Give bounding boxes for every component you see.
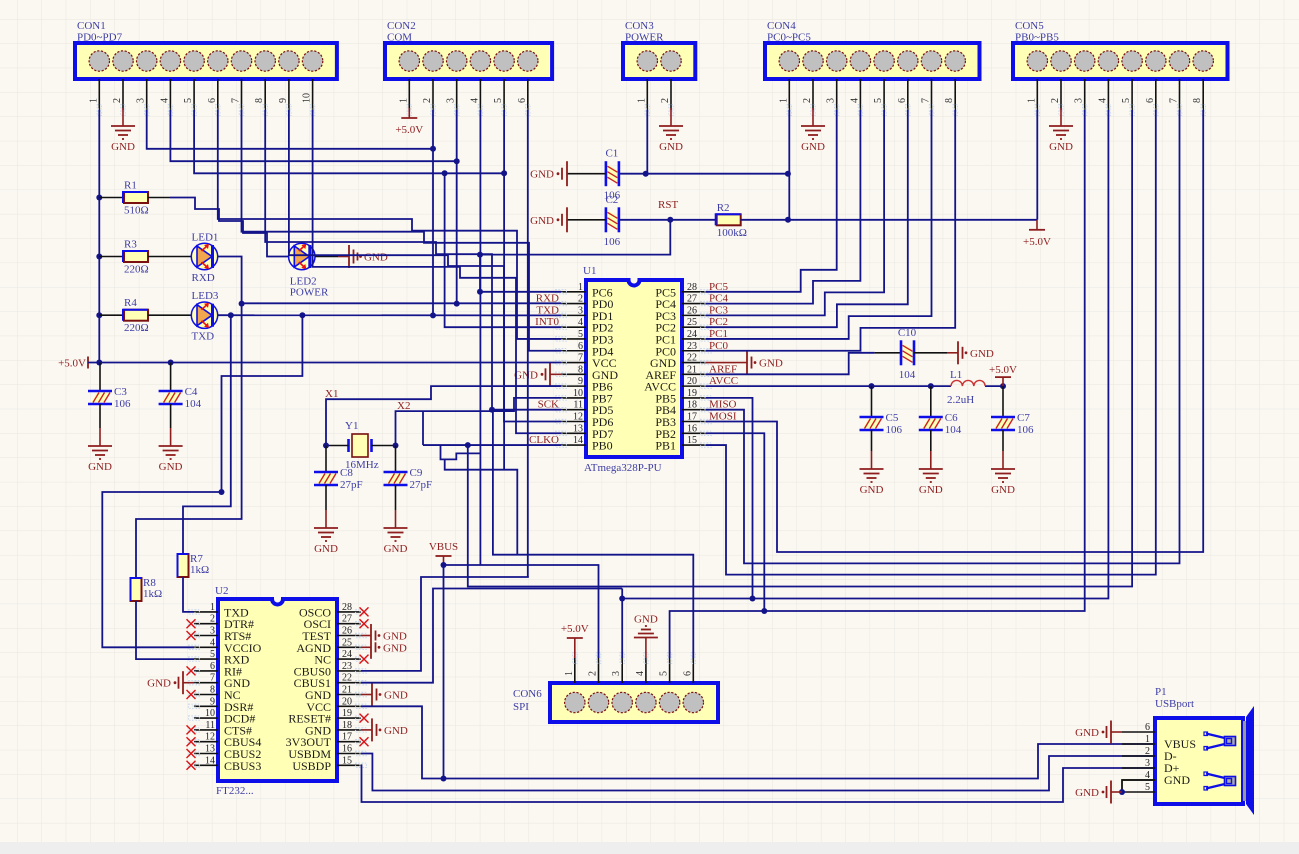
wire CON4 pin8 PC0 bbox=[706, 110, 955, 351]
svg-text:GND: GND bbox=[384, 543, 408, 555]
wire pin9 feed bbox=[504, 385, 561, 387]
power +5.0V bbox=[1002, 377, 1004, 386]
svg-text:6: 6 bbox=[578, 341, 583, 352]
svg-text:11: 11 bbox=[573, 400, 583, 411]
svg-text:PB0~PB5: PB0~PB5 bbox=[1015, 32, 1059, 44]
wire VBUS vertical bbox=[444, 565, 1156, 779]
wire CON4 pin4 PC4 bbox=[706, 110, 860, 304]
svg-text:X1: X1 bbox=[325, 388, 338, 400]
svg-text:26: 26 bbox=[342, 626, 352, 637]
resistor R1 bbox=[124, 192, 148, 203]
capacitor C5 bbox=[863, 419, 881, 429]
svg-text:GND: GND bbox=[1075, 727, 1099, 739]
svg-text:TXD: TXD bbox=[192, 331, 215, 343]
wire CON5 pin8 MOSI bbox=[706, 110, 1203, 552]
wire mid staircase a bbox=[222, 315, 303, 492]
ground bbox=[634, 637, 658, 639]
wire CON4 pin1 +5V bbox=[788, 110, 790, 220]
svg-text:GND: GND bbox=[530, 169, 554, 181]
U2 pins left bbox=[194, 611, 218, 613]
wire SCK to CON6 pin6 bbox=[493, 410, 693, 658]
wire CON5 pin5 CLKO bbox=[468, 110, 1132, 587]
svg-text:1kΩ: 1kΩ bbox=[190, 564, 209, 576]
svg-text:27: 27 bbox=[342, 614, 352, 625]
svg-text:5: 5 bbox=[183, 98, 194, 103]
power +5.0V bbox=[87, 357, 89, 369]
inductor L1 bbox=[951, 380, 985, 386]
connector CON2 bbox=[385, 43, 552, 79]
wire CON1 pin3 to CON2 pin2 bbox=[147, 110, 433, 149]
svg-text:CON4: CON4 bbox=[767, 20, 796, 32]
svg-text:GND: GND bbox=[514, 369, 538, 381]
svg-text:LED1: LED1 bbox=[192, 232, 219, 244]
wire mid staircase b bbox=[441, 445, 481, 459]
connector CON6 bbox=[550, 683, 718, 722]
svg-text:4: 4 bbox=[1097, 98, 1108, 103]
U1 pin22 ground bbox=[706, 362, 736, 364]
svg-text:2: 2 bbox=[578, 294, 583, 305]
wire CON1 pin6 bus bbox=[218, 110, 561, 339]
svg-text:4: 4 bbox=[635, 671, 646, 676]
svg-text:9: 9 bbox=[578, 376, 583, 387]
U1 pins left bbox=[561, 291, 586, 293]
svg-text:+5.0V: +5.0V bbox=[561, 623, 589, 635]
svg-text:5: 5 bbox=[1145, 782, 1150, 793]
connector CON1 bbox=[75, 43, 337, 79]
svg-text:2: 2 bbox=[422, 98, 433, 103]
wire U2 CBUS0 bbox=[361, 577, 529, 671]
svg-text:2: 2 bbox=[1050, 98, 1061, 103]
svg-text:GND: GND bbox=[659, 141, 683, 153]
capacitor C7 bbox=[994, 419, 1012, 429]
crystal Y1 bbox=[352, 434, 368, 457]
svg-text:ATmega328P-PU: ATmega328P-PU bbox=[584, 462, 662, 474]
connector CON3 bbox=[623, 43, 695, 79]
svg-text:9: 9 bbox=[210, 696, 215, 707]
svg-text:1: 1 bbox=[578, 282, 583, 293]
resistor R7 bbox=[178, 554, 189, 577]
wire TXD row bbox=[218, 314, 561, 316]
svg-text:1: 1 bbox=[1026, 98, 1037, 103]
svg-text:GND: GND bbox=[364, 252, 388, 264]
svg-text:CON2: CON2 bbox=[387, 20, 416, 32]
capacitor C4 bbox=[162, 393, 180, 403]
svg-text:RST: RST bbox=[658, 199, 678, 211]
svg-text:1: 1 bbox=[564, 671, 575, 676]
svg-text:GND: GND bbox=[530, 215, 554, 227]
svg-text:GND: GND bbox=[384, 690, 408, 702]
capacitor C4 branch bbox=[170, 363, 172, 392]
svg-text:8: 8 bbox=[1192, 98, 1203, 103]
ground bbox=[170, 428, 172, 446]
svg-text:C2: C2 bbox=[605, 194, 618, 206]
svg-text:9: 9 bbox=[278, 98, 289, 103]
svg-text:21: 21 bbox=[342, 685, 352, 696]
svg-text:20: 20 bbox=[687, 376, 697, 387]
ground bbox=[325, 510, 327, 528]
resistor R2 bbox=[717, 214, 741, 225]
C2 ground bbox=[567, 219, 606, 221]
svg-text:19: 19 bbox=[342, 708, 352, 719]
svg-text:+5.0V: +5.0V bbox=[989, 364, 1017, 376]
svg-text:3: 3 bbox=[210, 626, 215, 637]
svg-text:2.2uH: 2.2uH bbox=[947, 394, 974, 406]
svg-text:GND: GND bbox=[970, 348, 994, 360]
ground bbox=[1111, 791, 1122, 793]
svg-text:LED3: LED3 bbox=[192, 290, 219, 302]
svg-text:2: 2 bbox=[802, 98, 813, 103]
wire CON5 pin1 bbox=[1036, 110, 1038, 220]
svg-text:6: 6 bbox=[897, 98, 908, 103]
svg-text:3: 3 bbox=[578, 305, 583, 316]
svg-text:100kΩ: 100kΩ bbox=[717, 227, 747, 239]
svg-text:3: 3 bbox=[1145, 758, 1150, 769]
svg-text:21: 21 bbox=[687, 364, 697, 375]
svg-text:COM: COM bbox=[387, 32, 412, 44]
svg-text:C1: C1 bbox=[605, 148, 618, 160]
svg-text:1: 1 bbox=[88, 98, 99, 103]
svg-text:C6: C6 bbox=[945, 412, 958, 424]
svg-text:GND: GND bbox=[384, 725, 408, 737]
power +5.0V bbox=[1036, 220, 1038, 230]
svg-text:U1: U1 bbox=[583, 265, 596, 277]
svg-text:3: 3 bbox=[136, 98, 147, 103]
wire CLKO row bbox=[423, 444, 561, 446]
wire CON1 pin4 to CON2 pin3 bbox=[170, 110, 456, 161]
wire USBDP to D+ bbox=[361, 765, 1155, 802]
svg-text:5: 5 bbox=[578, 329, 583, 340]
svg-text:3: 3 bbox=[1074, 98, 1085, 103]
svg-text:1: 1 bbox=[636, 98, 647, 103]
wire X2 net bbox=[372, 445, 396, 447]
resistor R7 net (TXD) bbox=[183, 315, 231, 554]
wire X1 net bbox=[326, 445, 349, 447]
LED LED2 bbox=[288, 256, 316, 258]
LED LED3 bbox=[191, 314, 219, 316]
svg-text:C8: C8 bbox=[340, 467, 353, 479]
svg-text:12: 12 bbox=[205, 732, 215, 743]
svg-text:23: 23 bbox=[687, 341, 697, 352]
wire CON5 pin3 PB2 bbox=[706, 110, 1085, 611]
U1 pins right bbox=[682, 291, 706, 293]
wire CON5 pin4 via p19 bbox=[706, 398, 753, 599]
wire CON1 pin5 INT0 rail bbox=[194, 110, 504, 173]
svg-text:C9: C9 bbox=[410, 467, 423, 479]
svg-text:GND: GND bbox=[383, 642, 407, 654]
svg-text:8: 8 bbox=[210, 685, 215, 696]
P1 pin4/5 ground bbox=[1122, 780, 1155, 792]
svg-text:USBDP: USBDP bbox=[292, 759, 331, 773]
power +5.0V bbox=[408, 108, 410, 118]
svg-text:18: 18 bbox=[687, 400, 697, 411]
wire CON1 pin9 bus bbox=[289, 110, 561, 421]
wire R2 to +5V bbox=[740, 219, 1037, 221]
svg-text:GND: GND bbox=[860, 484, 884, 496]
svg-text:14: 14 bbox=[205, 755, 215, 766]
capacitor C10 bbox=[903, 343, 913, 362]
svg-text:12: 12 bbox=[573, 411, 583, 422]
svg-text:5: 5 bbox=[210, 649, 215, 660]
svg-text:CON1: CON1 bbox=[77, 20, 106, 32]
svg-text:2: 2 bbox=[660, 98, 671, 103]
capacitor C1 bbox=[607, 164, 617, 183]
op U1 body bbox=[586, 280, 682, 457]
ground bbox=[183, 682, 194, 684]
svg-text:7: 7 bbox=[1169, 98, 1180, 103]
svg-text:CBUS3: CBUS3 bbox=[224, 759, 261, 773]
svg-text:220Ω: 220Ω bbox=[124, 322, 149, 334]
svg-text:8: 8 bbox=[944, 98, 955, 103]
svg-text:3: 3 bbox=[446, 98, 457, 103]
wire CON2 pin5 bus bbox=[503, 110, 505, 470]
svg-text:220Ω: 220Ω bbox=[124, 264, 149, 276]
svg-text:PB0: PB0 bbox=[592, 439, 613, 453]
svg-text:7: 7 bbox=[210, 673, 215, 684]
ground bbox=[670, 108, 672, 126]
svg-text:GND: GND bbox=[1049, 141, 1073, 153]
svg-text:C4: C4 bbox=[185, 386, 198, 398]
svg-text:18: 18 bbox=[342, 720, 352, 731]
ground bbox=[812, 108, 814, 126]
svg-text:7: 7 bbox=[578, 353, 583, 364]
svg-text:7: 7 bbox=[921, 98, 932, 103]
svg-text:POWER: POWER bbox=[625, 32, 664, 44]
svg-text:POWER: POWER bbox=[290, 287, 329, 299]
svg-text:GND: GND bbox=[759, 358, 783, 370]
svg-text:VBUS: VBUS bbox=[429, 541, 458, 553]
capacitor C8 bbox=[325, 446, 327, 473]
svg-text:2: 2 bbox=[588, 671, 599, 676]
svg-text:1: 1 bbox=[1145, 734, 1150, 745]
svg-text:GND: GND bbox=[147, 678, 171, 690]
capacitor C9 bbox=[387, 474, 405, 484]
svg-text:7: 7 bbox=[231, 98, 242, 103]
ground bbox=[99, 428, 101, 446]
svg-text:GND: GND bbox=[1164, 773, 1190, 787]
ground bbox=[1111, 731, 1122, 733]
resistor R8 net (RXD) bbox=[136, 303, 242, 578]
svg-text:RXD: RXD bbox=[192, 272, 215, 284]
capacitor C3 branch bbox=[99, 363, 101, 392]
svg-text:6: 6 bbox=[517, 98, 528, 103]
svg-text:28: 28 bbox=[342, 602, 352, 613]
svg-text:GND: GND bbox=[111, 141, 135, 153]
svg-text:C5: C5 bbox=[886, 412, 899, 424]
svg-text:GND: GND bbox=[991, 484, 1015, 496]
wire CON4 pin6 PC2 bbox=[706, 110, 908, 327]
svg-text:R1: R1 bbox=[124, 180, 137, 192]
wire CON6 pin3 to bus bbox=[621, 589, 623, 659]
svg-text:24: 24 bbox=[687, 329, 697, 340]
ground bbox=[871, 451, 873, 469]
svg-text:Y1: Y1 bbox=[345, 420, 358, 432]
resistor R4 bbox=[124, 310, 148, 321]
svg-text:6: 6 bbox=[1145, 98, 1156, 103]
wire CON5 pin7 MISO bbox=[706, 110, 1180, 563]
ground bbox=[930, 451, 932, 469]
wire CON1 pin8 bus bbox=[265, 110, 561, 410]
svg-text:8: 8 bbox=[254, 98, 265, 103]
ground bbox=[122, 108, 124, 126]
wire VCCIO bbox=[102, 492, 219, 647]
svg-text:16: 16 bbox=[687, 423, 697, 434]
svg-text:CON6: CON6 bbox=[513, 688, 542, 700]
svg-text:27pF: 27pF bbox=[410, 479, 433, 491]
wire CON2 pin4 DTR bbox=[479, 110, 481, 565]
svg-text:510Ω: 510Ω bbox=[124, 205, 149, 217]
capacitor C9 bbox=[395, 446, 397, 473]
wire CON6 pin5 to bus bbox=[670, 611, 765, 658]
wire CON3 pin1 +5V bbox=[646, 110, 648, 174]
wire R3 lead bbox=[99, 256, 124, 258]
svg-text:27pF: 27pF bbox=[340, 479, 363, 491]
svg-text:CON5: CON5 bbox=[1015, 20, 1044, 32]
capacitor C2 bbox=[607, 210, 617, 229]
svg-text:16: 16 bbox=[342, 744, 352, 755]
LED2 ground bbox=[315, 256, 338, 258]
wire LED1 to RXD row bbox=[218, 257, 561, 304]
svg-text:GND: GND bbox=[919, 484, 943, 496]
op U2 body bbox=[218, 599, 337, 781]
svg-text:PD0~PD7: PD0~PD7 bbox=[77, 32, 123, 44]
wire CON4 pin5 PC3 bbox=[706, 110, 884, 315]
svg-text:6: 6 bbox=[207, 98, 218, 103]
svg-text:5: 5 bbox=[493, 98, 504, 103]
wire R4 lead bbox=[99, 314, 124, 316]
svg-text:X2: X2 bbox=[397, 400, 410, 412]
wire CON2 pin3 RXD bbox=[456, 110, 458, 304]
svg-text:2: 2 bbox=[1145, 746, 1150, 757]
svg-text:+5.0V: +5.0V bbox=[58, 358, 86, 370]
svg-text:20: 20 bbox=[342, 696, 352, 707]
net AREF bbox=[706, 353, 875, 375]
svg-text:1: 1 bbox=[210, 602, 215, 613]
ground bbox=[947, 352, 958, 354]
svg-text:15: 15 bbox=[342, 755, 352, 766]
svg-text:GND: GND bbox=[314, 543, 338, 555]
wire CON2 pin6 bus bbox=[527, 110, 529, 577]
capacitor C6 bbox=[922, 419, 940, 429]
svg-text:GND: GND bbox=[159, 461, 183, 473]
svg-text:14: 14 bbox=[573, 435, 583, 446]
ground bbox=[361, 694, 372, 696]
svg-text:25: 25 bbox=[687, 317, 697, 328]
svg-text:106: 106 bbox=[604, 236, 621, 248]
wire USBDM to D- bbox=[361, 754, 1155, 791]
svg-text:19: 19 bbox=[687, 388, 697, 399]
U2 no-connects left bbox=[187, 619, 196, 628]
wire CON5 pin6 PB1 bbox=[706, 110, 1156, 575]
net AVCC bbox=[706, 385, 951, 387]
svg-text:11: 11 bbox=[205, 720, 215, 731]
ground bbox=[736, 362, 747, 364]
capacitor C7 bbox=[1002, 386, 1004, 417]
wire R1 lead bbox=[99, 197, 124, 199]
capacitor C6 bbox=[930, 386, 932, 417]
connector CON5 bbox=[1013, 43, 1228, 79]
svg-text:8: 8 bbox=[578, 364, 583, 375]
svg-text:2: 2 bbox=[112, 98, 123, 103]
svg-text:3: 3 bbox=[826, 98, 837, 103]
svg-text:1: 1 bbox=[778, 98, 789, 103]
svg-text:22: 22 bbox=[342, 673, 352, 684]
svg-text:17: 17 bbox=[342, 732, 352, 743]
wire U2 CBUS1 bbox=[361, 589, 622, 683]
svg-text:GND: GND bbox=[1075, 787, 1099, 799]
svg-text:PC0~PC5: PC0~PC5 bbox=[767, 32, 811, 44]
wire R1 to LED2 staircase bbox=[148, 197, 170, 199]
svg-text:4: 4 bbox=[159, 98, 170, 103]
svg-text:4: 4 bbox=[469, 98, 480, 103]
svg-text:SPI: SPI bbox=[513, 701, 529, 713]
U2 no-connects right bbox=[360, 607, 369, 616]
capacitor C8 bbox=[317, 474, 335, 484]
wire INT0 drop bbox=[445, 173, 561, 327]
svg-text:23: 23 bbox=[342, 661, 352, 672]
svg-text:24: 24 bbox=[342, 649, 352, 660]
svg-text:FT232...: FT232... bbox=[216, 785, 254, 797]
svg-text:C7: C7 bbox=[1017, 412, 1030, 424]
svg-text:GND: GND bbox=[383, 631, 407, 643]
net +5V top rail bbox=[619, 173, 788, 175]
svg-text:17: 17 bbox=[687, 411, 697, 422]
wire U2 VCC to VBUS bbox=[361, 706, 444, 778]
svg-text:10: 10 bbox=[302, 93, 313, 103]
svg-text:USBport: USBport bbox=[1155, 698, 1194, 710]
svg-text:104: 104 bbox=[185, 398, 202, 410]
wire CON2 pin2 TXD bbox=[432, 110, 434, 315]
svg-text:C3: C3 bbox=[114, 386, 127, 398]
svg-text:1kΩ: 1kΩ bbox=[143, 588, 162, 600]
ground bbox=[361, 729, 372, 731]
svg-text:106: 106 bbox=[114, 398, 131, 410]
U2 TEST/AGND grounds bbox=[361, 635, 371, 637]
USB contacts bbox=[1206, 734, 1231, 740]
svg-text:U2: U2 bbox=[215, 585, 228, 597]
connector CON4 bbox=[765, 43, 980, 79]
capacitor C3 bbox=[91, 393, 109, 403]
svg-text:4: 4 bbox=[210, 637, 215, 648]
svg-text:13: 13 bbox=[205, 744, 215, 755]
svg-text:4: 4 bbox=[578, 317, 583, 328]
wire CON4 pin3 PC5 bbox=[706, 110, 837, 292]
svg-text:L1: L1 bbox=[950, 369, 962, 381]
wire CON1 pin7 bus bbox=[242, 110, 562, 351]
svg-text:5: 5 bbox=[873, 98, 884, 103]
svg-text:3: 3 bbox=[611, 671, 622, 676]
node +5V vertical from CON1 pin1 bbox=[98, 110, 100, 363]
svg-text:6: 6 bbox=[1145, 722, 1150, 733]
svg-text:6: 6 bbox=[210, 661, 215, 672]
ground bbox=[395, 510, 397, 528]
svg-text:15: 15 bbox=[687, 435, 697, 446]
U2 pins right bbox=[337, 611, 361, 613]
svg-text:+5.0V: +5.0V bbox=[395, 124, 423, 136]
ground bbox=[1060, 108, 1062, 126]
ground bbox=[1002, 451, 1004, 469]
svg-text:106: 106 bbox=[1017, 424, 1034, 436]
C10 ground bbox=[914, 352, 947, 354]
svg-text:13: 13 bbox=[573, 423, 583, 434]
ground CON6 pin4 bbox=[645, 638, 647, 659]
svg-text:22: 22 bbox=[687, 353, 697, 364]
capacitor C5 bbox=[871, 386, 873, 417]
svg-text:R4: R4 bbox=[124, 297, 137, 309]
svg-text:5: 5 bbox=[1121, 98, 1132, 103]
svg-text:25: 25 bbox=[342, 637, 352, 648]
resistor R8 bbox=[131, 578, 142, 601]
svg-text:R2: R2 bbox=[717, 202, 730, 214]
